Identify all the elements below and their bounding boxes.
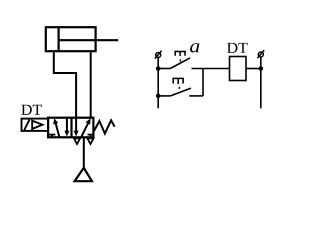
- air supply source triangle: [75, 168, 92, 181]
- cylinder C1 body: [46, 27, 96, 51]
- node: junction dot right: [259, 66, 264, 71]
- right position: diagonal flow arrow P->B: [81, 122, 88, 136]
- solenoid slash: [24, 120, 29, 130]
- solenoid actuator box: [22, 119, 49, 131]
- spring return: [94, 120, 115, 133]
- exhaust triangle left: [74, 138, 80, 144]
- switch contact 2 (NO) blade: [171, 88, 192, 96]
- node: junction dot left top: [156, 66, 161, 71]
- wire: right cylinder port pipe to valve port B: [90, 52, 92, 117]
- valve V1 body (2-position): [48, 118, 93, 138]
- label DT (solenoid): [21, 105, 42, 115]
- exhaust triangle right: [87, 138, 93, 144]
- valve position divider: [70, 118, 72, 138]
- solenoid triangle: [32, 121, 42, 129]
- wire: left rail: [157, 58, 159, 109]
- wire: bottom branch right segment: [189, 95, 203, 97]
- switch contact a (NO) blade: [170, 58, 190, 69]
- relay coil DT box: [230, 57, 247, 81]
- wire: right rail: [260, 57, 262, 108]
- wire: coil to right rail: [246, 68, 261, 70]
- cylinder piston: [57, 27, 59, 51]
- label a: [190, 43, 199, 52]
- terminal R (right, circle with slash): [258, 52, 263, 57]
- right position: blocked port symbol: [88, 135, 94, 138]
- wire: branch join vertical: [202, 69, 204, 96]
- label DT (coil): [227, 43, 248, 53]
- left position: up flow arrow P->A: [56, 123, 60, 137]
- wire: top branch right segment: [192, 68, 230, 70]
- left position: down flow arrow B->exhaust: [66, 119, 68, 132]
- pushbutton operator (bottom): [172, 78, 184, 88]
- terminal L (left, circle with slash): [156, 53, 161, 58]
- wire: bottom branch left segment: [158, 95, 170, 97]
- node: junction dot left bottom: [156, 94, 161, 99]
- cylinder piston rod: [59, 39, 119, 41]
- wire: top branch left segment: [158, 68, 170, 70]
- wire: left cylinder port pipe to valve port A: [54, 52, 76, 117]
- left position: blocked port symbol: [49, 135, 56, 138]
- pushbutton operator (top): [174, 52, 185, 62]
- right position: down flow arrow A->exhaust (continues pipe): [75, 117, 77, 131]
- wire: pressure supply line P: [83, 137, 85, 168]
